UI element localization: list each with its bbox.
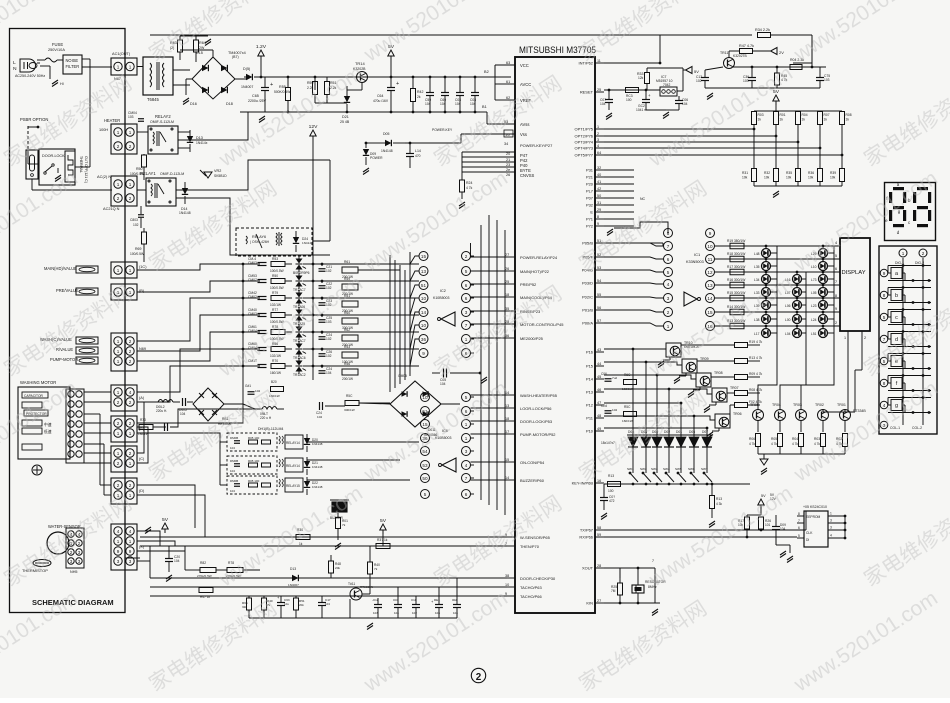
resistor R63 bbox=[178, 40, 183, 52]
svg-text:20k: 20k bbox=[299, 603, 304, 607]
resistor R24 4.7k bbox=[460, 180, 465, 192]
svg-text:P10: P10 bbox=[586, 429, 594, 434]
led matrix row wires bbox=[715, 245, 841, 247]
motor winding 1 bbox=[22, 402, 42, 408]
svg-text:P15: P15 bbox=[586, 364, 594, 369]
segment a bbox=[893, 187, 904, 190]
svg-text:23: 23 bbox=[506, 163, 510, 167]
svg-text:RELAY15: RELAY15 bbox=[286, 484, 300, 488]
segment e bbox=[889, 210, 892, 221]
inverter in IC1 bbox=[684, 292, 697, 306]
svg-text:10u: 10u bbox=[284, 602, 289, 606]
svg-text:3: 3 bbox=[667, 296, 670, 301]
wire motor row bbox=[224, 403, 243, 405]
wire tr11 collector rail bbox=[733, 66, 826, 68]
display module bbox=[840, 238, 870, 331]
connector motor A bbox=[111, 385, 137, 411]
svg-text:10k: 10k bbox=[764, 176, 770, 180]
svg-text:POWER-KEY/P27: POWER-KEY/P27 bbox=[520, 143, 552, 148]
svg-text:55: 55 bbox=[597, 293, 601, 297]
svg-text:P07: P07 bbox=[586, 196, 593, 201]
svg-text:5: 5 bbox=[667, 270, 670, 275]
svg-text:104: 104 bbox=[325, 602, 330, 606]
svg-text:5: 5 bbox=[798, 534, 800, 538]
led cluster 3 bbox=[819, 249, 828, 258]
svg-text:R05 100: R05 100 bbox=[248, 459, 260, 463]
svg-text:2: 2 bbox=[129, 144, 132, 149]
svg-text:THERMAL: THERMAL bbox=[79, 156, 83, 173]
svg-text:100H: 100H bbox=[99, 128, 108, 132]
capacitor CM05 104 bbox=[164, 423, 166, 431]
resistor R56 bbox=[271, 347, 285, 352]
svg-text:4: 4 bbox=[597, 144, 599, 148]
svg-text:104: 104 bbox=[425, 102, 431, 106]
wire vcc group bbox=[494, 65, 496, 100]
resistor R01 7k bbox=[336, 518, 341, 529]
svg-text:C64: C64 bbox=[377, 94, 383, 98]
svg-text:D21: D21 bbox=[342, 115, 349, 119]
svg-text:18: 18 bbox=[505, 293, 509, 297]
wire XOUT bbox=[604, 567, 620, 569]
svg-text:HI: HI bbox=[60, 82, 64, 86]
diode D05 power bbox=[246, 74, 252, 80]
diode D13b 1N4007 bbox=[292, 575, 298, 581]
svg-text:2: 2 bbox=[117, 461, 120, 466]
matrix segment d bbox=[891, 334, 902, 345]
svg-text:4: 4 bbox=[129, 529, 132, 534]
svg-text:1N4007: 1N4007 bbox=[288, 583, 299, 587]
svg-text:POWER: POWER bbox=[370, 156, 383, 160]
svg-text:470: 470 bbox=[415, 154, 421, 158]
resistor R13 100 bbox=[608, 482, 621, 487]
svg-text:3: 3 bbox=[129, 559, 132, 564]
svg-text:59: 59 bbox=[597, 533, 601, 537]
svg-text:1: 1 bbox=[129, 461, 132, 466]
segment d bbox=[893, 224, 904, 227]
svg-text:TR09: TR09 bbox=[700, 357, 709, 361]
svg-text:15: 15 bbox=[707, 310, 713, 315]
svg-text:AC21Q N: AC21Q N bbox=[103, 207, 120, 211]
wire KIN bbox=[604, 602, 660, 604]
capacitor C01b 104 bbox=[394, 604, 402, 606]
resistor R50 100/0.5W bbox=[142, 155, 147, 167]
wire row to IC2 bbox=[322, 314, 419, 316]
svg-text:9: 9 bbox=[597, 222, 599, 226]
svg-text:R09 4 7k: R09 4 7k bbox=[749, 372, 763, 376]
svg-text:R36: R36 bbox=[808, 171, 814, 175]
capacitor GC2 1041s bbox=[642, 99, 650, 101]
svg-text:GM05: GM05 bbox=[398, 374, 407, 378]
wire main rail bbox=[268, 76, 511, 78]
stub P42 bbox=[462, 156, 515, 158]
resistor R53 bbox=[271, 262, 285, 267]
wire VCC entry bbox=[494, 65, 496, 77]
door lock switch box bbox=[39, 149, 75, 185]
resistor R77 bbox=[271, 313, 285, 318]
reset ic IC7 M51957 7042 bbox=[660, 87, 677, 96]
wire bbox=[793, 35, 812, 63]
svg-text:102: 102 bbox=[326, 354, 332, 358]
svg-text:2: 2 bbox=[922, 251, 925, 256]
svg-text:F02 4 7k: F02 4 7k bbox=[749, 400, 762, 404]
buzzer BZ1 bbox=[332, 502, 347, 512]
svg-text:POWER-RELAY/P24: POWER-RELAY/P24 bbox=[520, 255, 558, 260]
capacitor C60 104 bbox=[441, 92, 449, 94]
svg-text:TR11: TR11 bbox=[720, 51, 728, 55]
svg-text:2: 2 bbox=[129, 349, 132, 354]
ground TR09 bbox=[674, 377, 680, 381]
svg-text:220u H.: 220u H. bbox=[156, 409, 167, 413]
capacitor C04 104 bbox=[456, 92, 464, 94]
reset ground rail bbox=[705, 87, 820, 89]
svg-text:R05: R05 bbox=[771, 437, 777, 441]
svg-text:470u /16V: 470u /16V bbox=[373, 99, 389, 103]
connector valve2 bbox=[111, 284, 137, 300]
svg-text:D(5): D(5) bbox=[243, 67, 251, 71]
svg-text:1: 1 bbox=[844, 336, 846, 340]
page number 2 bbox=[471, 668, 485, 682]
resistor R04 2.3k bbox=[790, 65, 802, 70]
diode D21 1N4148 bbox=[304, 461, 310, 467]
led D09 POWER bbox=[365, 143, 367, 148]
triac TR1AC2 bbox=[296, 361, 303, 366]
svg-text:RELAY14: RELAY14 bbox=[286, 441, 300, 445]
capacitor C63 10u bbox=[277, 602, 285, 604]
relay RELAY14 bbox=[227, 433, 277, 451]
svg-text:OPT5/P77: OPT5/P77 bbox=[575, 153, 593, 158]
svg-text:R05 100: R05 100 bbox=[248, 436, 260, 440]
resistor R79 bbox=[271, 296, 285, 301]
svg-text:NC: NC bbox=[640, 197, 646, 201]
capacitor C64 470u/16V bbox=[387, 87, 395, 89]
svg-text:RESET: RESET bbox=[580, 90, 594, 95]
svg-text:HEATER: HEATER bbox=[104, 118, 120, 123]
svg-text:1: 1 bbox=[129, 493, 132, 498]
svg-text:4 7k: 4 7k bbox=[749, 442, 755, 446]
svg-text:N69: N69 bbox=[139, 347, 146, 351]
resistor R34 2.2k bbox=[758, 33, 771, 38]
resistor R05 4.7k bbox=[778, 434, 783, 447]
svg-text:3: 3 bbox=[465, 310, 468, 315]
svg-text:100/0.5W: 100/0.5W bbox=[270, 269, 284, 273]
svg-text:50: 50 bbox=[597, 194, 601, 198]
svg-text:2e: 2e bbox=[506, 168, 510, 172]
wire vertical bundle left of IC2 bbox=[389, 255, 391, 392]
svg-text:2: 2 bbox=[117, 144, 120, 149]
resistor R02 4.7k bbox=[843, 434, 848, 447]
led cluster 1 column wire bbox=[776, 246, 778, 352]
svg-text:R16 300/1W: R16 300/1W bbox=[727, 278, 746, 282]
svg-text:P14: P14 bbox=[586, 377, 594, 382]
resistor R51b 20k bbox=[294, 598, 299, 610]
svg-text:PRE/P52: PRE/P52 bbox=[520, 282, 536, 287]
motor terminal grid bbox=[66, 389, 84, 463]
svg-text:104: 104 bbox=[682, 102, 688, 106]
svg-text:10k: 10k bbox=[786, 176, 792, 180]
wire TX bbox=[604, 529, 806, 531]
led cluster 2 bbox=[793, 275, 802, 284]
svg-text:TX/P67: TX/P67 bbox=[580, 528, 593, 533]
svg-text:101: 101 bbox=[765, 523, 771, 527]
key matrix column wires bbox=[632, 349, 634, 437]
eeprom pins left bbox=[797, 515, 804, 517]
svg-text:102: 102 bbox=[412, 611, 417, 615]
svg-text:D16: D16 bbox=[190, 102, 197, 106]
digit top pins bbox=[899, 249, 907, 257]
svg-text:2: 2 bbox=[129, 483, 132, 488]
svg-text:B1: B1 bbox=[482, 105, 487, 109]
svg-text:R18 300/1W: R18 300/1W bbox=[727, 252, 746, 256]
svg-text:TR07: TR07 bbox=[730, 386, 739, 390]
svg-text:P71: P71 bbox=[586, 217, 593, 222]
wire OPT lines to grid bbox=[604, 128, 754, 130]
svg-text:8: 8 bbox=[798, 512, 800, 516]
svg-text:TR08: TR08 bbox=[714, 371, 723, 375]
svg-text:R77: R77 bbox=[272, 308, 278, 312]
capacitor C59 104 bbox=[426, 92, 434, 94]
svg-text:DH1(B)-112LM4: DH1(B)-112LM4 bbox=[258, 427, 283, 431]
sensor terminals bbox=[66, 528, 84, 568]
svg-text:61: 61 bbox=[506, 80, 510, 84]
capacitor C08 104 bbox=[471, 92, 479, 94]
resistor R73 160/1W bbox=[139, 425, 153, 430]
svg-text:TR1AC2: TR1AC2 bbox=[293, 373, 306, 377]
svg-text:7: 7 bbox=[835, 280, 837, 284]
thermal cutoff bbox=[65, 151, 75, 182]
svg-text:14: 14 bbox=[707, 296, 713, 301]
svg-text:NOISE: NOISE bbox=[66, 58, 79, 63]
svg-text:PRE/VALUE: PRE/VALUE bbox=[56, 288, 79, 293]
svg-text:32k: 32k bbox=[242, 605, 247, 609]
wire bridge2 bbox=[359, 403, 390, 404]
svg-text:28: 28 bbox=[597, 564, 601, 568]
resistor R51 2.2k bbox=[325, 82, 330, 95]
resistor R70 bbox=[271, 364, 285, 369]
svg-text:7: 7 bbox=[798, 519, 800, 523]
transistor TR09 bbox=[682, 359, 697, 373]
svg-text:4 7k: 4 7k bbox=[792, 442, 798, 446]
svg-text:21: 21 bbox=[506, 158, 510, 162]
resistor R56 row bbox=[342, 369, 358, 375]
svg-text:104: 104 bbox=[440, 102, 446, 106]
svg-text:1: 1 bbox=[117, 539, 120, 544]
capacitor 002 104 bbox=[453, 604, 461, 606]
resistor R06 4.7k bbox=[756, 434, 761, 447]
svg-text:R56: R56 bbox=[344, 362, 350, 366]
svg-text:4: 4 bbox=[129, 390, 132, 395]
capacitor C11 102 bbox=[412, 604, 420, 606]
svg-text:18: 18 bbox=[505, 417, 509, 421]
connector AC1(OUT) bbox=[111, 58, 137, 75]
svg-text:AC(2) N: AC(2) N bbox=[97, 174, 111, 179]
eeprom pins right bbox=[828, 515, 845, 517]
svg-text:34: 34 bbox=[504, 142, 508, 146]
bottom gnd rail bbox=[249, 617, 457, 619]
svg-text:104: 104 bbox=[230, 489, 235, 493]
svg-text:42: 42 bbox=[597, 187, 601, 191]
svg-text:5V: 5V bbox=[380, 518, 387, 524]
svg-text:OMIF-D-112LM: OMIF-D-112LM bbox=[160, 172, 184, 176]
svg-text:26: 26 bbox=[506, 173, 510, 177]
svg-text:OPT4/P73: OPT4/P73 bbox=[575, 146, 594, 151]
svg-text:100: 100 bbox=[608, 489, 614, 493]
ground bbox=[145, 527, 151, 531]
svg-text:9: 9 bbox=[505, 592, 507, 596]
connector heater bbox=[111, 124, 137, 154]
noise filter bbox=[63, 55, 82, 74]
svg-text:13: 13 bbox=[421, 269, 427, 274]
wire row to TR08 bbox=[657, 375, 696, 379]
svg-text:D13: D13 bbox=[290, 567, 296, 571]
svg-text:TR06: TR06 bbox=[733, 412, 742, 416]
diode D22 1N4148 bbox=[304, 481, 310, 487]
wire row to TR10 bbox=[633, 348, 666, 350]
svg-text:7u2: 7u2 bbox=[612, 376, 617, 380]
svg-text:P00/A: P00/A bbox=[582, 321, 593, 326]
svg-text:9: 9 bbox=[129, 549, 132, 554]
svg-text:104: 104 bbox=[394, 611, 399, 615]
svg-text:L48: L48 bbox=[754, 252, 760, 256]
power 5V eeprom bbox=[758, 499, 764, 505]
svg-text:50: 50 bbox=[422, 476, 428, 481]
capacitor C12b 103 bbox=[374, 604, 382, 606]
svg-text:3: 3 bbox=[465, 449, 468, 454]
resistor R53 row bbox=[342, 352, 358, 358]
svg-text:1: 1 bbox=[117, 349, 120, 354]
wire psbr dashed bbox=[27, 126, 29, 150]
cap C05 104 between drivers bbox=[443, 369, 445, 378]
resistor R50 bbox=[271, 279, 285, 284]
svg-text:12k: 12k bbox=[638, 76, 644, 80]
ground HI bbox=[52, 80, 58, 84]
svg-text:103: 103 bbox=[326, 320, 332, 324]
svg-text:L14: L14 bbox=[415, 149, 421, 153]
relay RELAY15 bbox=[227, 476, 277, 494]
svg-text:6: 6 bbox=[798, 526, 800, 530]
svg-text:R08 4 7k: R08 4 7k bbox=[749, 388, 763, 392]
svg-text:10: 10 bbox=[421, 323, 427, 328]
svg-text:32: 32 bbox=[597, 166, 601, 170]
svg-text:64: 64 bbox=[597, 151, 601, 155]
connector motor C bbox=[111, 446, 137, 472]
svg-text:2: 2 bbox=[129, 451, 132, 456]
resistor R82 270k/0.5W bbox=[200, 568, 216, 573]
svg-text:1k: 1k bbox=[802, 118, 806, 122]
wire left to middle rows bbox=[137, 264, 243, 270]
svg-text:5: 5 bbox=[883, 315, 886, 320]
svg-text:L05: L05 bbox=[811, 291, 817, 295]
svg-text:P16: P16 bbox=[586, 350, 594, 355]
svg-text:104: 104 bbox=[180, 412, 186, 416]
capacitor D405 104 bbox=[182, 398, 184, 406]
svg-text:CUT OFF(121 C): CUT OFF(121 C) bbox=[84, 156, 88, 183]
svg-text:BUZZER/P60: BUZZER/P60 bbox=[520, 478, 545, 483]
led cluster 3 column wire bbox=[833, 246, 835, 352]
svg-text:DI: DI bbox=[806, 538, 809, 542]
svg-text:R04: R04 bbox=[792, 437, 798, 441]
svg-text:1: 1 bbox=[117, 390, 120, 395]
relay RELAY14 bbox=[227, 456, 277, 474]
wire relay2 bbox=[178, 131, 190, 133]
svg-text:104: 104 bbox=[780, 527, 786, 531]
svg-text:1N4148: 1N4148 bbox=[179, 211, 191, 215]
svg-text:2: 2 bbox=[864, 336, 866, 340]
svg-text:6: 6 bbox=[465, 296, 468, 301]
svg-text:VR2: VR2 bbox=[214, 169, 221, 173]
svg-text:1: 1 bbox=[117, 451, 120, 456]
svg-text:RX/P66: RX/P66 bbox=[579, 535, 593, 540]
svg-text:R19 4 7k: R19 4 7k bbox=[749, 340, 763, 344]
svg-text:PSBR OPTION: PSBR OPTION bbox=[20, 117, 48, 122]
svg-text:POWER-KEY: POWER-KEY bbox=[432, 128, 453, 132]
svg-text:17: 17 bbox=[505, 430, 509, 434]
svg-text:7: 7 bbox=[883, 337, 886, 342]
svg-text:TACHO/P66: TACHO/P66 bbox=[520, 594, 542, 599]
resistor R04 4.7k bbox=[799, 434, 804, 447]
svg-text:10k: 10k bbox=[808, 176, 814, 180]
svg-text:9: 9 bbox=[117, 549, 120, 554]
svg-text:58: 58 bbox=[597, 526, 601, 530]
svg-text:27: 27 bbox=[505, 253, 509, 257]
grid top rail bbox=[754, 110, 842, 112]
capacitor C07 104 bbox=[605, 99, 613, 101]
wire eeprom gnd bbox=[776, 544, 790, 546]
svg-text:4 3k: 4 3k bbox=[716, 502, 722, 506]
svg-text:102: 102 bbox=[696, 79, 702, 83]
capacitor CM cap bbox=[138, 118, 144, 120]
svg-text:D05: D05 bbox=[383, 132, 389, 136]
svg-text:P13: P13 bbox=[586, 390, 594, 395]
triac TR1A06 bbox=[296, 293, 303, 298]
ground bbox=[205, 39, 211, 43]
svg-text:+05 KS24C010: +05 KS24C010 bbox=[803, 505, 827, 509]
svg-text:104: 104 bbox=[470, 102, 476, 106]
diode D05b 1N4148 bbox=[385, 140, 391, 146]
svg-text:10: 10 bbox=[505, 583, 509, 587]
svg-text:R32: R32 bbox=[764, 171, 770, 175]
svg-text:R15 300/1W: R15 300/1W bbox=[727, 291, 746, 295]
svg-text:103: 103 bbox=[824, 78, 830, 82]
svg-text:VCC: VCC bbox=[520, 63, 529, 68]
led cluster 2 column wire bbox=[805, 272, 807, 352]
transformer symbol relay6 bbox=[276, 233, 277, 245]
svg-text:100/0.5W: 100/0.5W bbox=[270, 286, 284, 290]
wire eeprom bottom gnd bbox=[789, 545, 791, 553]
svg-text:4: 4 bbox=[465, 463, 468, 468]
svg-text:56: 56 bbox=[597, 306, 601, 310]
cap C2x row0 bbox=[319, 268, 326, 270]
svg-text:29: 29 bbox=[597, 208, 601, 212]
capacitor L14 470 bbox=[406, 153, 414, 155]
svg-text:500K/0.5W: 500K/0.5W bbox=[274, 90, 291, 94]
svg-text:40: 40 bbox=[597, 173, 601, 177]
svg-text:L34: L34 bbox=[754, 278, 760, 282]
svg-text:R04: R04 bbox=[802, 113, 808, 117]
resistor R48 20k bbox=[329, 561, 334, 573]
svg-text:RELAY6: RELAY6 bbox=[252, 235, 266, 239]
ground TR10 bbox=[658, 361, 664, 365]
svg-text:L73: L73 bbox=[811, 278, 817, 282]
svg-text:b: b bbox=[895, 293, 898, 299]
cap C2x row2 bbox=[319, 302, 326, 304]
svg-text:4 7k: 4 7k bbox=[771, 442, 777, 446]
svg-text:102: 102 bbox=[133, 223, 139, 227]
svg-text:OMIF-S-112LM: OMIF-S-112LM bbox=[150, 120, 174, 124]
transistor row common rail bbox=[758, 453, 845, 455]
grid bottom rail bbox=[754, 185, 842, 187]
svg-text:R55: R55 bbox=[279, 85, 286, 89]
resistor R49 4.7k bbox=[262, 598, 267, 610]
